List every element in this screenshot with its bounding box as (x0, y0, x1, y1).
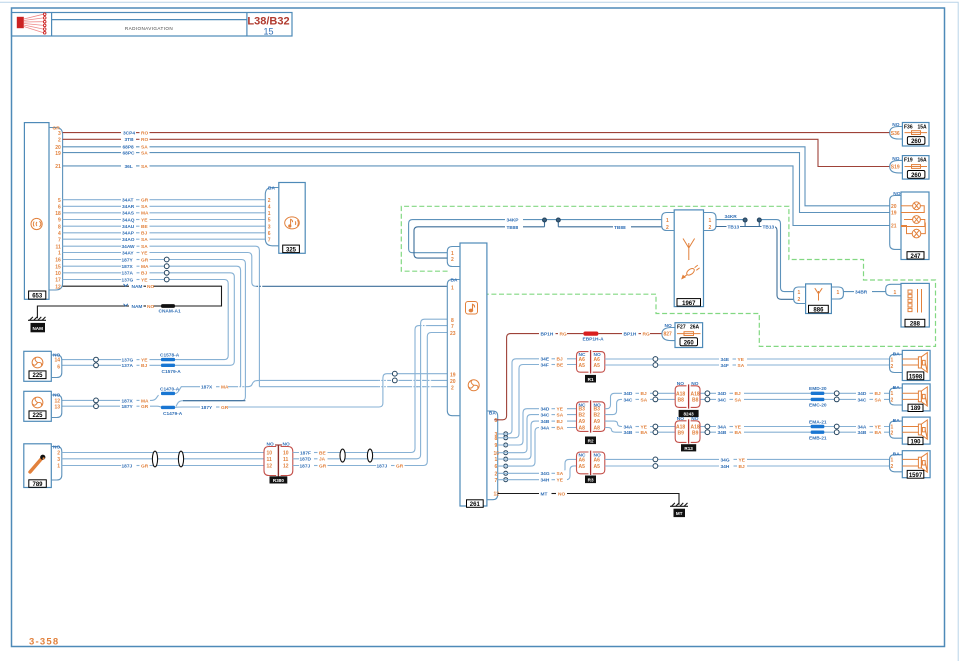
svg-text:6: 6 (58, 205, 61, 211)
svg-text:1: 1 (451, 285, 454, 291)
svg-text:34B: 34B (718, 430, 727, 436)
svg-text:325: 325 (286, 247, 297, 253)
svg-text:NO: NO (53, 444, 60, 450)
svg-text:34G: 34G (541, 471, 550, 477)
svg-text:34F: 34F (541, 362, 549, 368)
svg-text:SA: SA (557, 413, 564, 419)
svg-text:34AU: 34AU (122, 224, 135, 230)
shield boundary green dashed (401, 206, 935, 346)
junction connectors at 261.1/6 (504, 457, 508, 468)
svg-text:2: 2 (451, 257, 454, 263)
653 icon (31, 218, 42, 229)
svg-text:NO: NO (147, 304, 154, 310)
svg-text:4: 4 (268, 205, 271, 211)
svg-text:A6: A6 (579, 457, 586, 463)
svg-text:10: 10 (494, 451, 500, 457)
svg-text:9: 9 (58, 218, 61, 224)
component 653 radio/navigation unit (24, 123, 62, 300)
component 261 audio connection unit (447, 243, 499, 508)
fuse F19 16A (890, 156, 929, 180)
svg-text:187F: 187F (300, 450, 311, 456)
fuse F36 15A (890, 122, 929, 146)
svg-text:R2: R2 (588, 438, 594, 443)
svg-text:1: 1 (57, 464, 60, 470)
svg-text:BJ: BJ (557, 419, 563, 425)
component 325 display unit (265, 183, 305, 254)
svg-text:12: 12 (55, 284, 61, 290)
component 789 microphone (24, 444, 62, 488)
svg-text:34AS: 34AS (122, 211, 135, 217)
shield marker ovals on microphone wires (152, 451, 157, 467)
svg-text:RG: RG (643, 332, 650, 338)
svg-text:R3: R3 (588, 477, 594, 482)
svg-text:BJ: BJ (141, 231, 147, 237)
svg-text:1597: 1597 (909, 473, 923, 479)
svg-text:TB13: TB13 (728, 224, 740, 230)
wire 68PC 653.19 to 247.19 (63, 150, 890, 213)
svg-text:1: 1 (891, 391, 894, 397)
svg-text:3: 3 (268, 224, 271, 230)
svg-text:15: 15 (55, 264, 61, 270)
svg-text:BA: BA (893, 418, 900, 424)
svg-text:10: 10 (267, 451, 273, 457)
svg-text:GR: GR (141, 257, 149, 263)
wire 137G net 653.17 / 225A.14 (62, 277, 229, 364)
svg-text:2: 2 (891, 430, 894, 436)
svg-text:187X: 187X (122, 398, 134, 404)
svg-text:C1578-A: C1578-A (160, 352, 180, 358)
svg-text:21: 21 (891, 224, 897, 230)
svg-text:34KP: 34KP (507, 218, 520, 224)
svg-text:GR: GR (141, 463, 149, 469)
svg-text:BJ: BJ (141, 271, 147, 277)
component 247 instrument panel (890, 191, 929, 260)
svg-text:CNAM-A1: CNAM-A1 (159, 309, 181, 315)
svg-text:260: 260 (911, 173, 922, 179)
svg-text:34AQ: 34AQ (122, 217, 135, 223)
svg-text:6: 6 (495, 464, 498, 470)
wire 34D R2 to 8243 to speaker 189.1 (605, 390, 890, 408)
svg-text:36L: 36L (125, 164, 133, 170)
junction connectors on 187Y/187X rows at 261.19/20 (392, 371, 397, 382)
wire 187F 789.2 to R380 (62, 452, 264, 454)
svg-text:12: 12 (283, 464, 289, 470)
svg-text:19: 19 (891, 211, 897, 217)
svg-text:34AT: 34AT (122, 198, 133, 204)
svg-text:187X: 187X (201, 385, 213, 391)
svg-text:JA: JA (319, 457, 326, 463)
svg-text:34A: 34A (541, 425, 550, 431)
svg-text:BA: BA (489, 411, 496, 417)
svg-text:8: 8 (58, 224, 61, 230)
svg-text:34BR: 34BR (855, 290, 868, 296)
svg-text:11: 11 (267, 457, 273, 463)
connector R1 (577, 350, 605, 382)
svg-text:TB13: TB13 (763, 224, 775, 230)
svg-text:34C: 34C (718, 397, 727, 403)
svg-text:TB88: TB88 (507, 225, 519, 231)
svg-text:187J: 187J (122, 463, 133, 469)
svg-text:SA: SA (738, 363, 745, 369)
svg-text:137G: 137G (122, 358, 134, 364)
svg-text:7: 7 (495, 478, 498, 484)
inline connector on 34KP/TB88 (543, 218, 561, 227)
wire 34AP 653.4 to 325.6 (63, 230, 265, 237)
svg-text:3CP4: 3CP4 (123, 131, 135, 137)
svg-text:653: 653 (32, 294, 43, 300)
svg-text:3: 3 (58, 131, 61, 137)
svg-text:2: 2 (891, 397, 894, 403)
svg-text:68PC: 68PC (123, 151, 136, 157)
svg-text:2: 2 (891, 464, 894, 470)
svg-text:19: 19 (55, 151, 61, 157)
junction connectors on 34A/34B right of R13 (705, 424, 710, 435)
svg-text:NAM: NAM (32, 326, 43, 331)
svg-text:SA: SA (141, 151, 148, 157)
svg-text:C1579-A: C1579-A (162, 369, 182, 375)
svg-text:225: 225 (32, 373, 43, 379)
svg-text:EMD-20: EMD-20 (809, 386, 827, 392)
svg-text:7: 7 (451, 324, 454, 330)
svg-text:2: 2 (495, 471, 498, 477)
svg-text:9: 9 (495, 443, 498, 449)
splice CNAM-A1 on NAM (159, 304, 181, 315)
svg-text:12: 12 (267, 464, 273, 470)
svg-text:BA: BA (451, 277, 458, 283)
svg-text:A6: A6 (579, 357, 586, 363)
svg-text:BJ: BJ (875, 391, 881, 397)
svg-text:34B: 34B (858, 430, 867, 436)
wire 187D R380 to 261.8 (293, 319, 448, 463)
wire 187F R380 to 261.7 (293, 326, 448, 457)
svg-text:GR: GR (319, 463, 327, 469)
svg-text:15A: 15A (918, 124, 928, 130)
svg-text:BJ: BJ (141, 363, 147, 369)
svg-text:34AP: 34AP (122, 231, 135, 237)
svg-text:2: 2 (58, 138, 61, 144)
loudspeaker 1597 rear left (890, 451, 931, 479)
svg-text:187D: 187D (300, 457, 312, 463)
svg-text:RO: RO (141, 137, 148, 143)
wire MT ground net 261.12 black (498, 491, 679, 505)
svg-text:2: 2 (891, 364, 894, 370)
svg-text:34D: 34D (718, 391, 727, 397)
wire 187D 789.3 to R380 (62, 458, 264, 460)
svg-text:MT: MT (541, 491, 548, 497)
wire 34AU 653.8 to 325.3 (63, 223, 265, 230)
wire TB88 261.2 to 1967.2 (414, 225, 662, 258)
wire 34AT 653.5 to 325.2 (63, 197, 265, 204)
svg-text:1: 1 (666, 218, 669, 224)
svg-text:BE: BE (141, 224, 148, 230)
svg-text:18: 18 (55, 211, 61, 217)
svg-text:14: 14 (54, 358, 60, 364)
wire 187Y net 653.16 / 225B.13 / 261.19 (62, 257, 448, 411)
svg-text:6: 6 (57, 364, 60, 370)
svg-text:B8: B8 (678, 397, 685, 403)
svg-text:SA: SA (641, 397, 648, 403)
svg-text:BJ: BJ (735, 391, 741, 397)
svg-text:A18: A18 (691, 391, 700, 397)
splice EMC-20 on 34C (809, 398, 827, 409)
loudspeaker 189 front right (890, 384, 931, 412)
ground NAM symbol (28, 317, 46, 332)
svg-text:NO: NO (892, 122, 899, 128)
wire 34G R3 to speaker 1597.1 (605, 456, 890, 463)
connector 8243 (675, 381, 700, 417)
svg-text:BA: BA (893, 351, 900, 357)
svg-text:827: 827 (664, 332, 673, 338)
wire 34BR 886 to 288 (843, 289, 885, 296)
svg-text:BA: BA (641, 430, 648, 436)
header harness connector icon (17, 13, 46, 34)
wire 34C R2 to 8243 to speaker 189.2 (605, 396, 890, 414)
svg-text:B9: B9 (692, 431, 699, 437)
wire 3TB 653.2 to fuse F19 (63, 136, 890, 166)
svg-text:1: 1 (891, 357, 894, 363)
svg-text:NO: NO (893, 191, 900, 197)
svg-text:NO: NO (677, 381, 684, 387)
svg-text:BA: BA (893, 452, 900, 458)
svg-text:S36: S36 (891, 131, 900, 137)
wire 68P8 653.20 to 247.20 (63, 144, 890, 206)
svg-text:B8: B8 (692, 397, 699, 403)
svg-text:34AR: 34AR (122, 204, 135, 210)
svg-text:MT: MT (676, 511, 683, 516)
svg-text:BA: BA (893, 385, 900, 391)
junction connectors on 34A/34B left of R13 (653, 424, 658, 435)
svg-text:A8: A8 (579, 426, 586, 432)
svg-text:NO: NO (892, 156, 899, 162)
svg-text:NO: NO (283, 442, 290, 448)
svg-text:A18: A18 (676, 391, 685, 397)
svg-text:34B: 34B (541, 419, 550, 425)
splice EMA-21 on 34A (809, 419, 827, 428)
junction connectors on 34D/34C right of 8243 (705, 391, 710, 402)
svg-text:5: 5 (58, 198, 61, 204)
svg-text:1: 1 (495, 457, 498, 463)
junction connectors on 187X/187Y at 225 (94, 398, 99, 409)
svg-text:16: 16 (55, 258, 61, 264)
svg-text:BP1H: BP1H (624, 332, 637, 338)
svg-text:SA: SA (141, 204, 148, 210)
wire 34D 261.9 to R2 (498, 406, 577, 445)
svg-text:247: 247 (910, 254, 921, 260)
svg-text:GR: GR (141, 198, 149, 204)
svg-text:137A: 137A (122, 271, 134, 277)
wire 34G 261.2 to R3 (498, 459, 577, 477)
svg-text:190: 190 (910, 439, 921, 445)
svg-text:1: 1 (268, 211, 271, 217)
wire 137A net 653.10 / 225A.6 (62, 270, 235, 369)
svg-text:MA: MA (141, 398, 149, 404)
svg-text:10: 10 (55, 271, 61, 277)
svg-text:A9: A9 (579, 419, 586, 425)
wire 36L 653.21 to 247.21 (63, 163, 890, 226)
svg-text:34AW: 34AW (122, 244, 136, 250)
svg-text:8243: 8243 (683, 412, 694, 417)
svg-text:20: 20 (450, 379, 456, 385)
svg-text:34AO: 34AO (122, 237, 135, 243)
svg-text:BE: BE (319, 450, 326, 456)
svg-text:YE: YE (141, 217, 148, 223)
svg-text:8: 8 (495, 436, 498, 442)
wire 187X net 653.15 / 225B.12 / 261.20 (62, 263, 448, 404)
wire NAM ground net 653.12 black (37, 283, 221, 318)
svg-text:789: 789 (32, 482, 43, 488)
svg-text:EMA-21: EMA-21 (809, 419, 827, 425)
svg-text:886: 886 (813, 308, 824, 314)
svg-text:BJ: BJ (641, 391, 647, 397)
svg-text:EMC-20: EMC-20 (809, 403, 827, 409)
svg-text:YE: YE (557, 478, 564, 484)
wire 34F 261.8 to R1 (498, 362, 577, 438)
junction connectors on 137A/137G rows at 653 (164, 270, 169, 282)
svg-text:260: 260 (684, 340, 695, 346)
wire 34E R1 to speaker 1598.1 (605, 356, 890, 363)
svg-text:A5: A5 (579, 363, 586, 369)
splice C1578-A on 137G (160, 352, 180, 361)
connector R3 (577, 451, 605, 484)
wire 34C 261.10 to R2 (498, 412, 577, 453)
svg-text:2: 2 (451, 385, 454, 391)
component 1967 antenna amplifier (662, 210, 716, 307)
svg-text:MA: MA (141, 264, 149, 270)
junction connectors on 34G/34H (653, 457, 658, 468)
component 288 antenna filter (886, 283, 930, 327)
svg-text:137G: 137G (122, 277, 134, 283)
svg-text:MA: MA (141, 211, 149, 217)
svg-text:34G: 34G (721, 457, 730, 463)
wire 34AQ 653.9 to 325.5 (63, 217, 265, 224)
svg-text:187Y: 187Y (122, 404, 134, 410)
junction connectors on 34D/34C after filters (834, 391, 839, 402)
junction connectors on 34D/34C left of 8243 (653, 391, 658, 402)
svg-text:13: 13 (54, 404, 60, 410)
splice EMB-21 on 34B (809, 431, 827, 442)
svg-text:BE: BE (557, 362, 564, 368)
svg-text:16A: 16A (918, 157, 928, 163)
svg-text:34AY: 34AY (122, 250, 134, 256)
wire 34A 261.6 to R2 (498, 425, 577, 467)
ground MT symbol (670, 503, 688, 517)
svg-text:S19: S19 (891, 165, 900, 171)
svg-text:NO: NO (691, 416, 698, 422)
splice C1579-A on 137A (161, 364, 181, 375)
svg-text:26A: 26A (690, 325, 700, 331)
wire 34AY 653.1 to 261.1 BA (63, 250, 448, 287)
svg-text:2: 2 (666, 225, 669, 231)
svg-text:BJ: BJ (739, 464, 745, 470)
svg-text:3-358: 3-358 (29, 637, 59, 648)
svg-text:SA: SA (557, 471, 564, 477)
svg-text:NO: NO (677, 416, 684, 422)
wire TB13 1967.2 to 886.2 (716, 224, 794, 300)
svg-text:1: 1 (709, 218, 712, 224)
svg-text:RG: RG (560, 332, 567, 338)
svg-text:NAM: NAM (132, 304, 143, 310)
shield marker ovals after R380 (340, 449, 345, 462)
svg-text:34B: 34B (624, 430, 633, 436)
svg-text:NO: NO (558, 491, 565, 497)
svg-text:187X: 187X (122, 264, 134, 270)
svg-text:BA: BA (875, 430, 882, 436)
junction connectors on 34E/34F (653, 357, 658, 368)
svg-text:3TB: 3TB (125, 137, 135, 143)
svg-text:34C: 34C (858, 397, 867, 403)
svg-text:B9: B9 (678, 431, 685, 437)
connector R13 (675, 416, 700, 451)
svg-text:21: 21 (55, 164, 61, 170)
wire 34KP 261.1 to 1967.1 (409, 218, 662, 253)
svg-text:GR: GR (141, 404, 149, 410)
svg-text:19: 19 (450, 372, 456, 378)
wire 34KR 1967.1 to 886.1 (716, 214, 794, 291)
svg-text:261: 261 (470, 502, 481, 508)
wire BP1H 261.5 to fuse F27 (494, 331, 662, 420)
svg-text:YE: YE (739, 457, 746, 463)
svg-text:C1470-A: C1470-A (160, 386, 180, 392)
svg-text:5: 5 (268, 218, 271, 224)
svg-text:7: 7 (268, 237, 271, 243)
svg-text:34H: 34H (721, 464, 730, 470)
svg-text:3: 3 (57, 457, 60, 463)
svg-text:SA: SA (875, 397, 882, 403)
svg-text:1: 1 (837, 290, 840, 296)
loudspeaker 1598 rear right (890, 350, 931, 380)
component 886 antenna base (794, 284, 844, 314)
svg-text:NO: NO (665, 323, 672, 329)
wire 34B 261.1 to R2 (498, 418, 577, 459)
svg-text:NO: NO (267, 442, 274, 448)
wire 34A R2 to R13 to speaker 190.1 (605, 421, 890, 430)
svg-text:A6: A6 (594, 357, 601, 363)
wire 34H R3 to speaker 1597.2 (605, 463, 890, 470)
svg-text:B2: B2 (594, 413, 601, 419)
wire 34F R1 to speaker 1598.2 (605, 362, 890, 369)
svg-text:187J: 187J (300, 463, 311, 469)
svg-text:A6: A6 (594, 457, 601, 463)
svg-text:BA: BA (735, 430, 742, 436)
svg-text:R1: R1 (588, 377, 594, 382)
svg-text:A5: A5 (594, 464, 601, 470)
svg-text:1: 1 (891, 458, 894, 464)
title block frame (12, 13, 293, 37)
svg-text:2: 2 (798, 297, 801, 303)
svg-text:A5: A5 (594, 363, 601, 369)
svg-text:34F: 34F (721, 363, 729, 369)
svg-text:BP1H: BP1H (541, 332, 554, 338)
svg-text:GR: GR (221, 405, 229, 411)
splice EBP1H-A on BP1H (583, 332, 605, 343)
svg-text:23: 23 (450, 331, 456, 337)
wire 187J 789.1 to R380 (62, 463, 264, 470)
svg-text:34H: 34H (541, 478, 550, 484)
splice C1479-A on 187Y (161, 406, 183, 417)
fuse F27 26A (662, 323, 703, 348)
svg-text:2: 2 (709, 225, 712, 231)
svg-text:RADIONAVIGATION: RADIONAVIGATION (125, 26, 173, 31)
svg-text:BA: BA (557, 425, 564, 431)
svg-text:288: 288 (910, 322, 921, 328)
svg-text:137A: 137A (122, 363, 134, 369)
inline connector on 34KR/TB13 (743, 218, 761, 227)
connector R380 (264, 442, 293, 484)
splice C1470-A on 187X (160, 386, 180, 395)
wire 3CP4 653.3 to fuse F36 (63, 130, 890, 137)
junction connectors on 137G/137A at 225 (94, 357, 99, 367)
component 225 front speaker left (24, 351, 62, 381)
